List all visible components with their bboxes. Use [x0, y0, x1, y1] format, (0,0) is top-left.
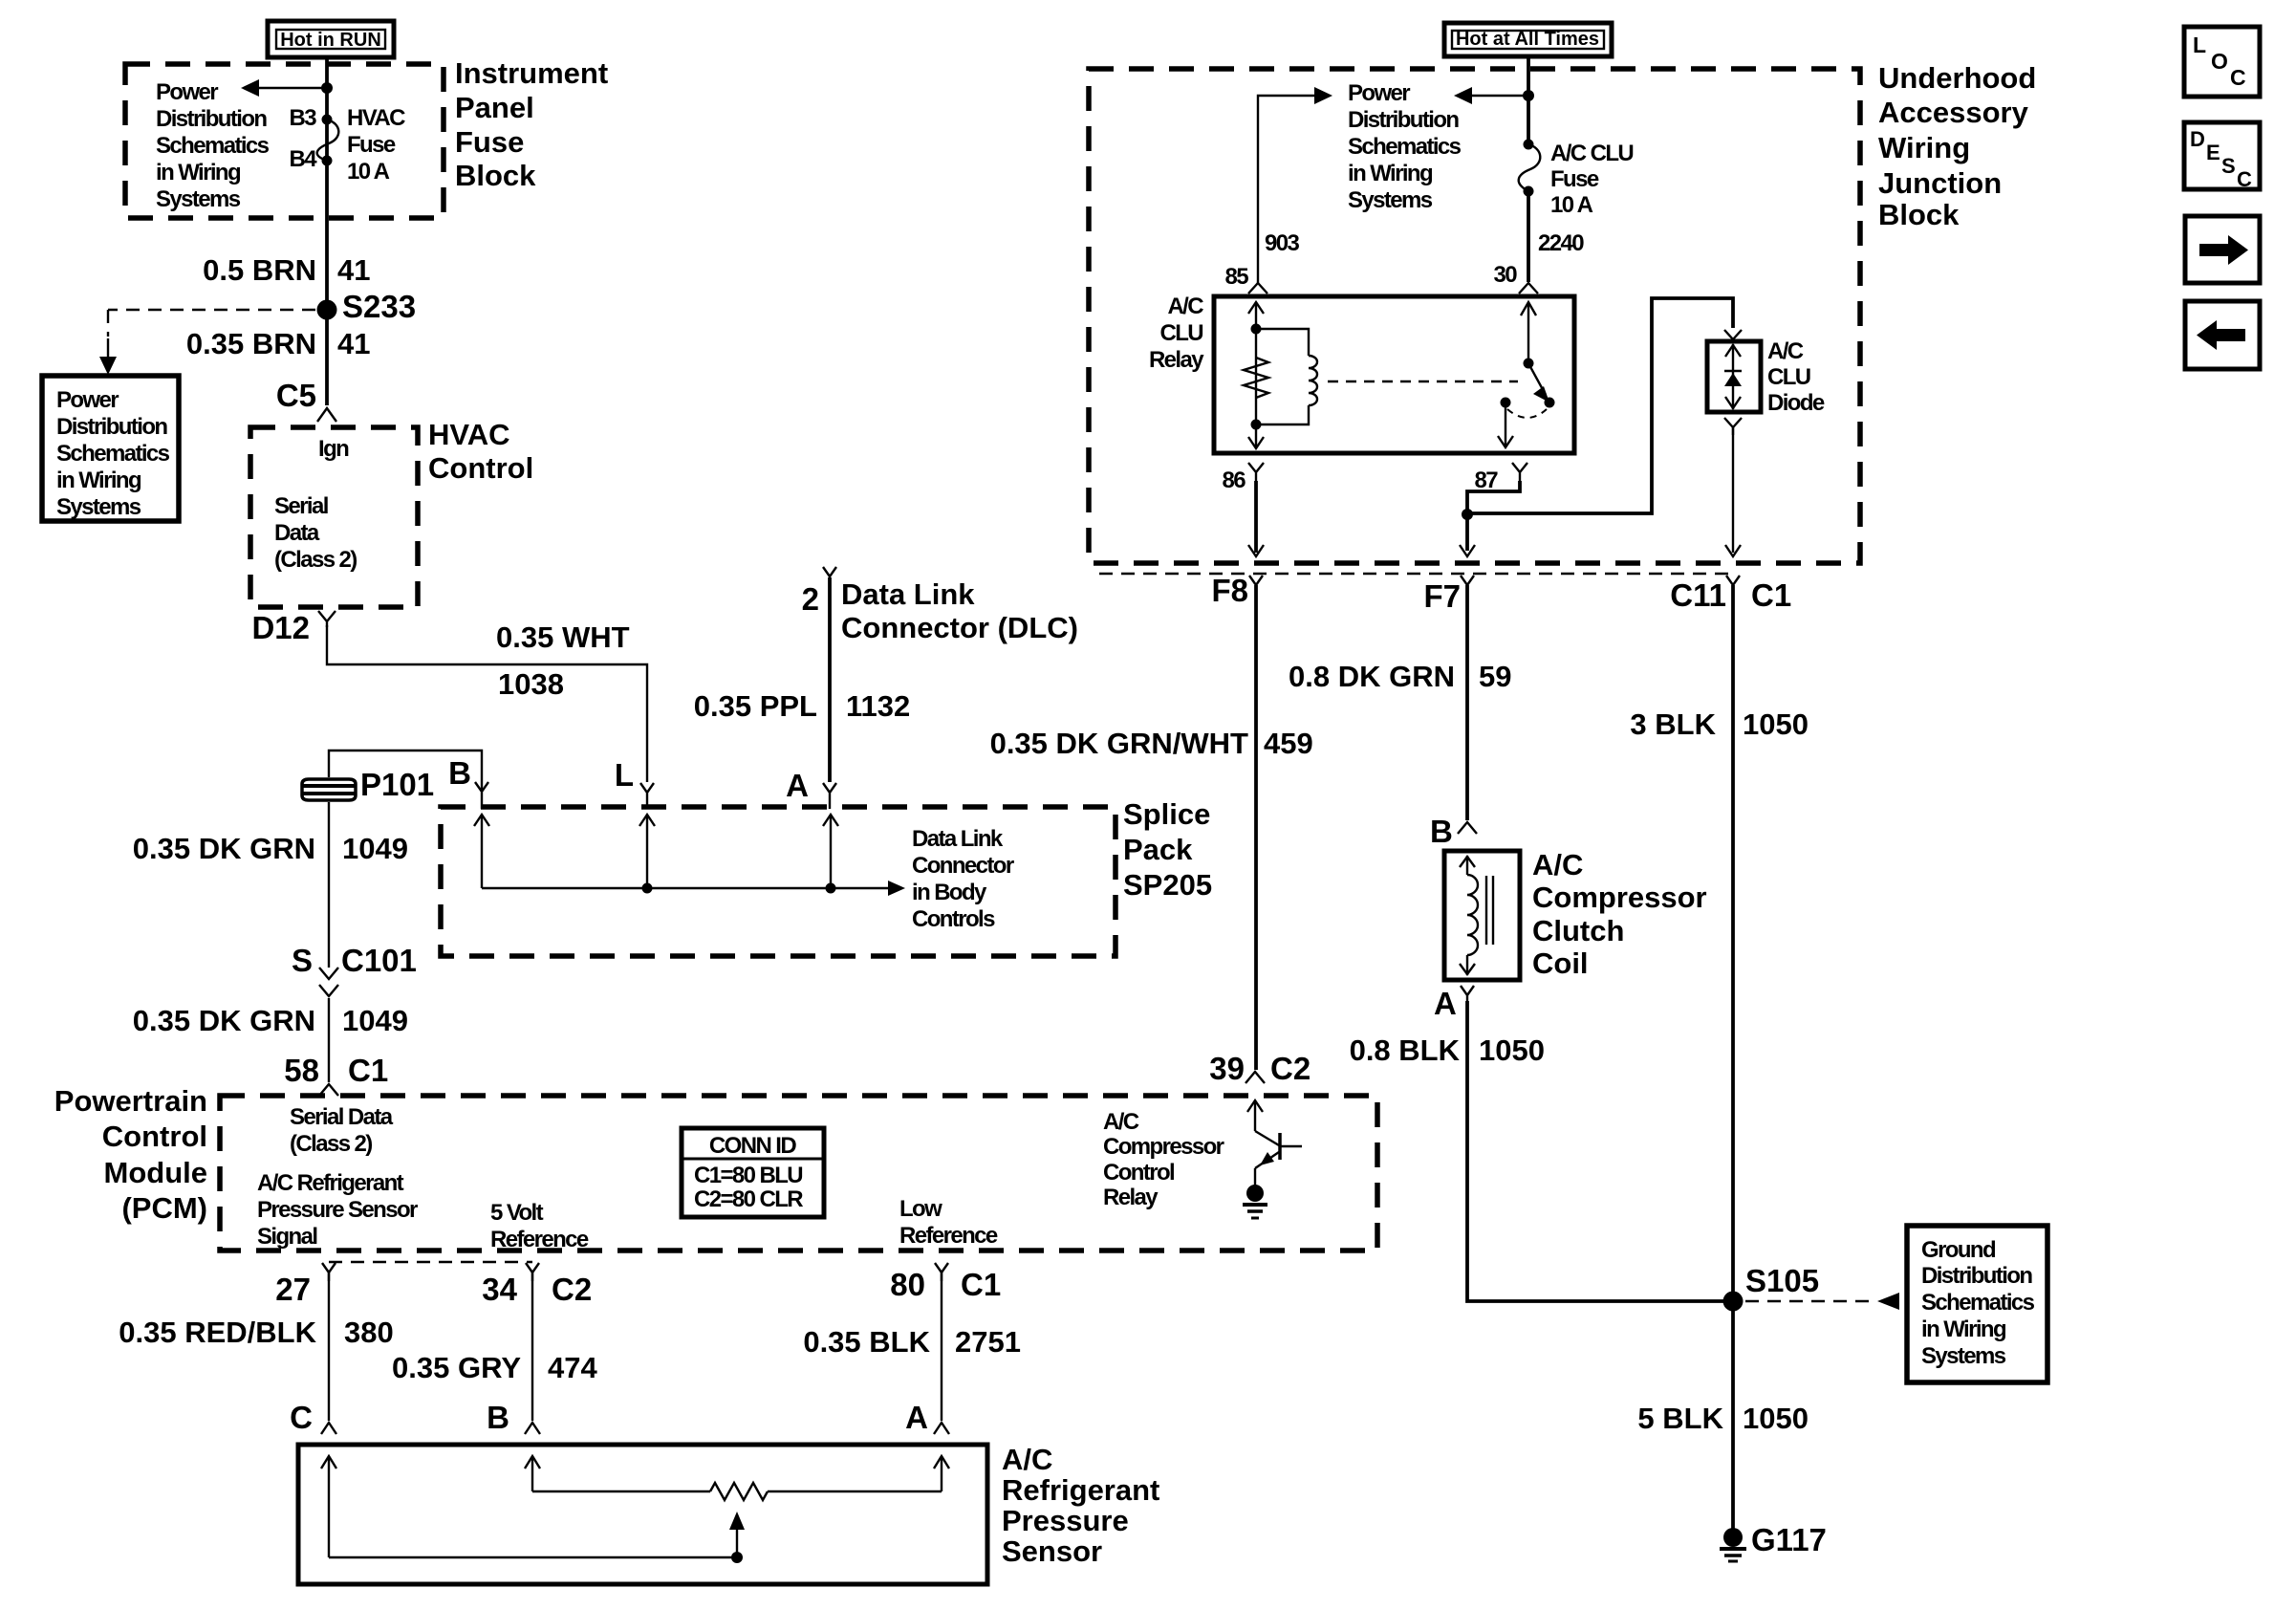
svg-text:A/C CLU: A/C CLU	[1550, 141, 1633, 166]
Power Distribution Schematics note (underhood)	[1348, 80, 1462, 213]
relay contact 87	[1501, 398, 1511, 408]
svg-text:Module: Module	[104, 1156, 208, 1189]
svg-text:Block: Block	[1878, 198, 1960, 231]
svg-text:0.5 BRN: 0.5 BRN	[203, 253, 316, 287]
svg-text:41: 41	[337, 253, 370, 287]
svg-text:474: 474	[548, 1351, 597, 1384]
svg-text:Clutch: Clutch	[1532, 914, 1624, 947]
svg-text:(Class 2): (Class 2)	[290, 1131, 372, 1157]
svg-text:Systems: Systems	[1921, 1343, 2006, 1369]
svg-text:Connector (DLC): Connector (DLC)	[841, 611, 1078, 644]
svg-text:(PCM): (PCM)	[121, 1191, 207, 1225]
svg-text:Relay: Relay	[1103, 1185, 1159, 1210]
svg-text:A/C: A/C	[1167, 294, 1203, 319]
svg-text:Schematics: Schematics	[1348, 134, 1462, 160]
connector A symbol (clutch coil)	[1461, 986, 1474, 1003]
Splice Pack dashed box	[441, 807, 1116, 956]
svg-text:30: 30	[1494, 262, 1518, 288]
wire Hot in RUN down to C5	[325, 57, 329, 405]
svg-text:S233: S233	[342, 289, 416, 324]
wire 34 to sensor B	[531, 1273, 533, 1421]
svg-text:0.35 DK GRN/WHT: 0.35 DK GRN/WHT	[990, 727, 1248, 760]
Serial Data (Class 2) label	[274, 493, 357, 573]
svg-text:0.35 WHT: 0.35 WHT	[496, 620, 630, 654]
svg-text:1050: 1050	[1743, 707, 1809, 741]
svg-text:A/C: A/C	[1103, 1109, 1139, 1135]
connector A symbol	[823, 783, 836, 809]
wire label 0.35 DK GRN 1049	[133, 832, 408, 865]
svg-text:S: S	[2221, 154, 2236, 178]
Splice Pack label	[1123, 797, 1212, 902]
svg-text:in Wiring: in Wiring	[1348, 161, 1433, 186]
HVAC Control label	[428, 418, 533, 485]
svg-text:CLU: CLU	[1159, 320, 1202, 346]
junction at A	[826, 883, 836, 894]
svg-text:SP205: SP205	[1123, 868, 1212, 902]
svg-text:903: 903	[1265, 230, 1299, 256]
A/C CLU Diode connector symbol top	[1724, 330, 1742, 339]
svg-text:1038: 1038	[498, 667, 564, 701]
sensor resistor track	[532, 1483, 942, 1500]
connector B symbol (clutch coil)	[1458, 822, 1477, 834]
sensor wiper	[329, 1512, 745, 1563]
svg-text:in Wiring: in Wiring	[156, 160, 241, 185]
svg-text:HVAC: HVAC	[347, 105, 405, 131]
splice arrow A	[823, 815, 838, 888]
svg-text:34: 34	[482, 1272, 517, 1307]
svg-text:A/C Refrigerant: A/C Refrigerant	[257, 1170, 404, 1196]
connector F8 symbol	[1249, 576, 1263, 595]
A/C CLU Relay label	[1149, 294, 1204, 373]
wire fuse to pin 30	[1527, 191, 1530, 282]
connector C5 symbol	[317, 408, 336, 422]
svg-text:41: 41	[337, 327, 370, 360]
ground G117	[1720, 1528, 1746, 1561]
svg-text:5 Volt: 5 Volt	[490, 1200, 544, 1226]
PCM C2 connector dashed line	[329, 1261, 532, 1263]
svg-text:Junction: Junction	[1878, 166, 2002, 200]
svg-text:Distribution: Distribution	[156, 106, 267, 132]
svg-text:(Class 2): (Class 2)	[274, 547, 357, 573]
fuse label A/C CLU Fuse 10 A	[1550, 141, 1633, 218]
relay switch pin 30	[1521, 302, 1536, 369]
wire label 0.35 BLK 2751	[803, 1325, 1021, 1359]
relay resistor	[1244, 358, 1268, 398]
svg-text:C101: C101	[341, 943, 417, 978]
wire arrow right from 903 branch	[1258, 87, 1332, 283]
sensor arrow B	[525, 1456, 540, 1491]
connector symbol pin 87	[1512, 463, 1527, 483]
svg-text:Ground: Ground	[1921, 1237, 1996, 1263]
svg-text:Control: Control	[1103, 1160, 1174, 1186]
wire 87 jog to F7	[1467, 481, 1520, 513]
Instrument Panel Fuse Block dashed box	[125, 64, 444, 218]
svg-text:Signal: Signal	[257, 1224, 316, 1250]
svg-text:2751: 2751	[955, 1325, 1021, 1359]
dashed branch from S233	[99, 310, 315, 375]
wire label 0.8 BLK 1050	[1350, 1033, 1545, 1067]
svg-text:Data Link: Data Link	[841, 577, 975, 611]
connector symbol pin 86	[1248, 463, 1264, 483]
svg-text:Control: Control	[102, 1120, 207, 1153]
svg-text:Pack: Pack	[1123, 833, 1193, 866]
svg-text:Refrigerant: Refrigerant	[1002, 1473, 1159, 1507]
svg-text:Data Link: Data Link	[912, 826, 1004, 852]
connector B symbol (sensor)	[525, 1423, 540, 1434]
Instrument Panel Fuse Block label	[455, 56, 608, 192]
svg-text:Low: Low	[899, 1196, 942, 1222]
svg-text:Connector: Connector	[912, 853, 1014, 879]
svg-text:F8: F8	[1211, 573, 1248, 608]
svg-text:Data: Data	[274, 520, 320, 546]
svg-text:C1: C1	[1751, 577, 1791, 613]
wire P101 down to PCM	[328, 802, 330, 968]
svg-text:Distribution: Distribution	[1348, 107, 1459, 133]
connector F7 symbol	[1461, 576, 1474, 595]
P101 pass-through grommet	[302, 779, 356, 800]
connector symbol at PCM 58	[319, 1084, 338, 1096]
arrow into junction block edge (F7)	[1465, 514, 1469, 551]
svg-text:C5: C5	[276, 378, 316, 413]
svg-text:Controls: Controls	[912, 906, 995, 932]
svg-text:S105: S105	[1745, 1263, 1819, 1298]
svg-text:39: 39	[1209, 1051, 1245, 1086]
wire P101 top to B	[329, 751, 482, 791]
wire label 0.35 RED/BLK 380	[119, 1316, 393, 1349]
connector C symbol (sensor)	[321, 1423, 336, 1434]
svg-text:86: 86	[1223, 468, 1246, 493]
wire label 3 BLK 1050	[1630, 707, 1809, 741]
wire D12 to L	[327, 625, 647, 782]
junction to diode branch	[1462, 509, 1473, 520]
svg-text:Sensor: Sensor	[1002, 1534, 1102, 1568]
A/C Compressor Clutch Coil label	[1532, 848, 1707, 980]
svg-text:C: C	[2237, 167, 2252, 191]
A/C Refrigerant Pressure Sensor Signal label	[257, 1170, 418, 1250]
wire label 0.8 DK GRN 59	[1289, 660, 1511, 693]
svg-text:1050: 1050	[1479, 1033, 1545, 1067]
svg-text:Control: Control	[428, 451, 533, 485]
connector L symbol	[640, 783, 654, 809]
svg-text:Instrument: Instrument	[455, 56, 608, 90]
wire arrow to power distribution	[252, 87, 327, 89]
wire to diode loop	[1467, 298, 1733, 513]
svg-text:0.35 BLK: 0.35 BLK	[803, 1325, 930, 1359]
svg-text:Reference: Reference	[899, 1223, 998, 1249]
node feed junction	[1523, 90, 1534, 101]
wire C1 down to S105	[1731, 585, 1735, 1537]
Data Link Connector (DLC) label	[841, 577, 1078, 644]
DLC wire	[828, 577, 832, 782]
svg-text:in Wiring: in Wiring	[56, 468, 141, 493]
connector symbol 34	[526, 1263, 539, 1281]
CONN ID table	[682, 1128, 824, 1217]
svg-text:CLU: CLU	[1767, 364, 1810, 390]
svg-text:Compressor: Compressor	[1103, 1134, 1224, 1160]
connector C11 C1 symbol	[1726, 576, 1740, 595]
Power Distribution Schematics solid box	[42, 376, 179, 521]
svg-text:Systems: Systems	[56, 494, 141, 520]
right margin icon LOC	[2184, 27, 2260, 97]
Ground Distribution Schematics solid box	[1907, 1226, 2047, 1382]
svg-text:Diode: Diode	[1767, 390, 1825, 416]
svg-text:1132: 1132	[846, 689, 910, 723]
svg-text:10 A: 10 A	[1550, 192, 1593, 218]
relay coil	[1256, 329, 1317, 424]
svg-text:Fuse: Fuse	[1550, 166, 1599, 192]
svg-text:C2=80 CLR: C2=80 CLR	[694, 1186, 803, 1212]
arrow into junction block edge (F8)	[1248, 545, 1264, 556]
fuse value label	[347, 105, 405, 185]
sensor arrow A	[934, 1456, 949, 1491]
Underhood Accessory Wiring Junction Block dashed box	[1089, 69, 1860, 563]
svg-text:B: B	[1430, 814, 1453, 849]
svg-text:0.35 DK GRN: 0.35 DK GRN	[133, 1004, 315, 1037]
svg-text:S: S	[292, 943, 313, 978]
svg-text:P101: P101	[360, 767, 434, 802]
svg-text:C1=80 BLU: C1=80 BLU	[694, 1163, 802, 1188]
svg-text:5 BLK: 5 BLK	[1637, 1402, 1723, 1435]
A/C Compressor Control Relay label	[1103, 1109, 1224, 1210]
svg-text:Fuse: Fuse	[347, 132, 396, 158]
wire label 5 BLK 1050	[1637, 1402, 1809, 1435]
svg-text:459: 459	[1264, 727, 1313, 760]
svg-text:O: O	[2211, 49, 2228, 74]
svg-text:380: 380	[344, 1316, 394, 1349]
svg-text:0.35 RED/BLK: 0.35 RED/BLK	[119, 1316, 316, 1349]
svg-text:C: C	[290, 1400, 313, 1435]
svg-text:Schematics: Schematics	[56, 441, 170, 467]
svg-text:Wiring: Wiring	[1878, 131, 1970, 164]
transistor driver inside PCM	[1247, 1100, 1302, 1186]
svg-text:L: L	[615, 757, 634, 793]
dashed branch to ground distribution	[1745, 1293, 1899, 1310]
svg-text:E: E	[2206, 141, 2220, 164]
svg-text:L: L	[2193, 33, 2206, 57]
svg-text:59: 59	[1479, 660, 1511, 693]
wire label 0.35 PPL 1132	[694, 689, 911, 723]
transistor ground	[1243, 1185, 1267, 1218]
wire diode to C11	[1725, 427, 1741, 556]
svg-text:Powertrain: Powertrain	[54, 1084, 207, 1118]
A/C CLU Diode label	[1767, 338, 1825, 416]
svg-text:in Body: in Body	[912, 880, 987, 905]
splice arrow B	[474, 815, 489, 888]
svg-text:in Wiring: in Wiring	[1921, 1316, 2006, 1342]
wire label 0.5 BRN 41	[203, 253, 370, 287]
svg-text:Reference: Reference	[490, 1227, 589, 1252]
connector symbol 39 C2	[1245, 1072, 1265, 1083]
svg-text:Splice: Splice	[1123, 797, 1210, 831]
svg-text:Systems: Systems	[1348, 187, 1433, 213]
connector B symbol	[475, 782, 488, 809]
junction at L	[642, 883, 653, 894]
svg-text:Fuse: Fuse	[455, 125, 524, 159]
svg-text:A: A	[905, 1400, 928, 1435]
splice arrow L	[639, 815, 655, 888]
connector symbol below diode	[1724, 418, 1742, 435]
svg-text:A/C: A/C	[1767, 338, 1804, 364]
wire below C101	[328, 998, 330, 1082]
relay coil branch pin 85	[1248, 302, 1264, 430]
Underhood block label	[1878, 61, 2036, 231]
svg-text:A: A	[786, 768, 809, 803]
relay switch blade	[1528, 363, 1555, 408]
relay 87 arrow down	[1498, 402, 1513, 447]
svg-text:A: A	[1434, 986, 1457, 1021]
A/C Refrigerant Pressure Sensor label	[1002, 1443, 1159, 1568]
svg-text:0.8 DK GRN: 0.8 DK GRN	[1289, 660, 1455, 693]
svg-text:Serial Data: Serial Data	[290, 1104, 394, 1130]
svg-text:0.8 BLK: 0.8 BLK	[1350, 1033, 1461, 1067]
svg-text:Compressor: Compressor	[1532, 881, 1707, 914]
A/C CLU Relay box	[1214, 296, 1574, 453]
svg-text:Panel: Panel	[455, 91, 534, 124]
svg-text:C2: C2	[552, 1272, 592, 1307]
wire Hot at All Times to fuse	[1527, 56, 1530, 144]
svg-text:F7: F7	[1423, 578, 1461, 614]
svg-text:27: 27	[275, 1272, 311, 1307]
svg-text:B: B	[487, 1400, 509, 1435]
connector 2 symbol	[823, 567, 836, 585]
wire label 0.35 GRY 474	[392, 1351, 597, 1384]
connector D12 symbol	[318, 611, 336, 627]
svg-text:Accessory: Accessory	[1878, 96, 2029, 129]
relay actuator dashed line	[1328, 381, 1518, 382]
svg-text:Power: Power	[1348, 80, 1410, 106]
svg-text:Underhood: Underhood	[1878, 61, 2036, 95]
splice bus wire	[482, 887, 892, 889]
svg-text:0.35 DK GRN: 0.35 DK GRN	[133, 832, 315, 865]
svg-text:D12: D12	[251, 610, 310, 645]
node junction at fuse feed	[321, 82, 333, 94]
svg-text:D: D	[2190, 127, 2205, 151]
svg-text:C2: C2	[1270, 1051, 1310, 1086]
svg-text:1049: 1049	[342, 1004, 408, 1037]
svg-text:3 BLK: 3 BLK	[1630, 707, 1716, 741]
svg-text:C11: C11	[1670, 577, 1726, 613]
svg-text:2240: 2240	[1538, 230, 1584, 256]
svg-text:Power: Power	[56, 387, 119, 413]
A/C CLU Diode box	[1707, 341, 1761, 412]
svg-text:10 A: 10 A	[347, 159, 390, 185]
svg-text:0.35 PPL: 0.35 PPL	[694, 689, 817, 723]
splice S233	[317, 300, 337, 320]
svg-text:Hot at All Times: Hot at All Times	[1456, 29, 1599, 50]
svg-text:CONN ID: CONN ID	[709, 1133, 796, 1159]
svg-text:B: B	[448, 755, 471, 791]
svg-text:Distribution: Distribution	[56, 414, 167, 440]
clutch coil internals	[1460, 856, 1493, 975]
svg-text:Power: Power	[156, 79, 218, 105]
relay contact dashed arc	[1507, 409, 1547, 418]
wire label 0.35 DK GRN/WHT 459	[990, 727, 1313, 760]
svg-text:85: 85	[1225, 264, 1249, 290]
wire arrow left to power distribution	[1465, 95, 1528, 97]
right margin icon DESC	[2184, 122, 2260, 191]
svg-text:A/C: A/C	[1532, 848, 1583, 881]
svg-text:58: 58	[284, 1053, 319, 1088]
svg-text:C: C	[2230, 65, 2246, 90]
svg-text:C1: C1	[961, 1267, 1001, 1302]
svg-text:0.35 GRY: 0.35 GRY	[392, 1351, 521, 1384]
fuse A/C CLU Fuse 10A	[1519, 140, 1541, 197]
Hot at All Times header box	[1444, 23, 1612, 56]
relay 86 arrow down	[1248, 424, 1264, 448]
A/C Compressor Clutch Coil box	[1444, 851, 1520, 980]
connector C101 symbol	[319, 968, 338, 996]
sensor arrow C	[321, 1456, 336, 1557]
Low Reference label	[899, 1196, 998, 1249]
wire 80 to sensor A	[941, 1273, 942, 1421]
svg-text:Ign: Ign	[318, 436, 349, 462]
Powertrain Control Module dashed box	[220, 1096, 1377, 1251]
wire clutch coil A to S105	[1467, 1001, 1733, 1301]
wire 27 to sensor C	[328, 1273, 330, 1421]
junction block connector line	[1099, 573, 1733, 575]
svg-text:0.35 BRN: 0.35 BRN	[186, 327, 316, 360]
svg-text:A/C: A/C	[1002, 1443, 1052, 1476]
Data Link Connector in Body Controls label	[912, 826, 1014, 932]
svg-text:Block: Block	[455, 159, 536, 192]
connector symbol pin 85	[1248, 283, 1267, 294]
svg-text:87: 87	[1475, 468, 1499, 493]
connector symbol 27	[322, 1263, 336, 1281]
wire label 0.35 BRN 41	[186, 327, 371, 360]
svg-text:B4: B4	[290, 146, 318, 172]
fuse HVAC Fuse 10A	[317, 115, 339, 166]
A/C Refrigerant Pressure Sensor box	[298, 1445, 987, 1584]
right margin icon arrow left	[2185, 301, 2260, 369]
right margin icon arrow right	[2185, 216, 2260, 283]
svg-text:Coil: Coil	[1532, 946, 1589, 980]
diode internals	[1724, 344, 1742, 409]
Hot in RUN header box	[268, 21, 394, 57]
connector A symbol (sensor)	[934, 1423, 949, 1434]
svg-text:G117: G117	[1751, 1522, 1827, 1557]
Serial Data (Class 2) label (PCM)	[290, 1104, 394, 1157]
svg-text:Pressure: Pressure	[1002, 1504, 1129, 1537]
5 Volt Reference label	[490, 1200, 589, 1252]
svg-text:B3: B3	[290, 105, 317, 131]
HVAC Control dashed box	[250, 427, 418, 607]
wire 86 to F8	[1254, 481, 1258, 553]
svg-text:Systems: Systems	[156, 186, 241, 212]
PCM label	[54, 1084, 207, 1225]
svg-text:Serial: Serial	[274, 493, 328, 519]
svg-text:Pressure Sensor: Pressure Sensor	[257, 1197, 418, 1223]
svg-text:Hot in RUN: Hot in RUN	[280, 30, 381, 51]
svg-text:Distribution: Distribution	[1921, 1263, 2032, 1289]
svg-text:HVAC: HVAC	[428, 418, 510, 451]
svg-text:C1: C1	[348, 1053, 388, 1088]
wire F7 down to clutch coil B	[1465, 585, 1469, 820]
svg-text:1049: 1049	[342, 832, 408, 865]
Power Distribution Schematics note (fuse block)	[156, 79, 270, 212]
wire F8 down to 39 C2	[1254, 585, 1258, 1070]
splice S105	[1723, 1292, 1744, 1312]
svg-text:2: 2	[802, 581, 819, 617]
connector symbol pin 30	[1519, 283, 1538, 294]
svg-text:1050: 1050	[1743, 1402, 1809, 1435]
wire label 0.35 DK GRN 1049 (lower)	[133, 1004, 408, 1037]
connector symbol 80	[935, 1263, 948, 1281]
svg-text:Schematics: Schematics	[1921, 1290, 2035, 1316]
svg-text:Relay: Relay	[1149, 347, 1204, 373]
svg-text:Schematics: Schematics	[156, 133, 270, 159]
svg-text:80: 80	[890, 1267, 925, 1302]
